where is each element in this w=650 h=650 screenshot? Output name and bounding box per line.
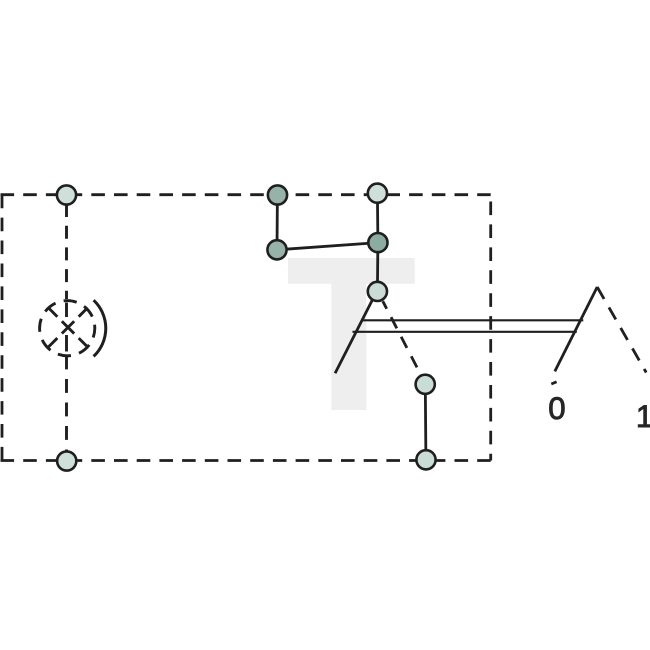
lamp L1 side arc — [94, 300, 106, 356]
wire: lamp branch upper dashed — [65, 204, 68, 299]
wire: alternate contact drop vertical — [424, 384, 427, 460]
switch S2 actuator position 0 (solid leg) — [555, 287, 597, 371]
lamp L1 cross stroke (SW-NE) — [49, 308, 88, 347]
node N1 under T3 — [267, 240, 286, 259]
terminal T3 top-mid — [268, 185, 287, 204]
wire: top feed vertical — [276, 195, 279, 250]
mechanical coupling bar (double line) — [353, 320, 584, 332]
node N3 switch pole — [368, 282, 387, 301]
terminal T2 bottom-left — [57, 451, 76, 470]
wire: cross link slanted — [277, 243, 378, 250]
terminal T4 top-right — [368, 184, 387, 203]
wire: pole drop vertical — [376, 243, 379, 292]
svg-text:0: 0 — [548, 391, 565, 426]
svg-text:1: 1 — [636, 399, 650, 434]
device outline (dashed box) — [1, 195, 491, 461]
switch S2 leg end tick — [551, 382, 556, 384]
terminal T1 top-left — [57, 185, 76, 204]
switch S1 moving contact position 1 (dashed arm) — [383, 301, 424, 380]
switch S1 moving contact position 0 (solid arm) — [335, 300, 372, 373]
wire: right feed vertical — [376, 193, 379, 242]
watermark T — [288, 258, 415, 410]
wire: lamp inner dash lower — [65, 335, 68, 352]
lamp L1 (dashed circle) — [40, 301, 95, 356]
wire: lamp branch lower dashed — [65, 356, 68, 462]
lamp L1 cross stroke (NW-SE) — [49, 308, 88, 347]
node N2 junction — [368, 233, 387, 252]
terminal T5 bottom — [416, 450, 435, 469]
switch S2 actuator position 1 (dashed leg) — [597, 287, 646, 373]
wire: lamp inner dash upper — [65, 303, 68, 318]
node N4 alternate contact — [416, 375, 435, 394]
